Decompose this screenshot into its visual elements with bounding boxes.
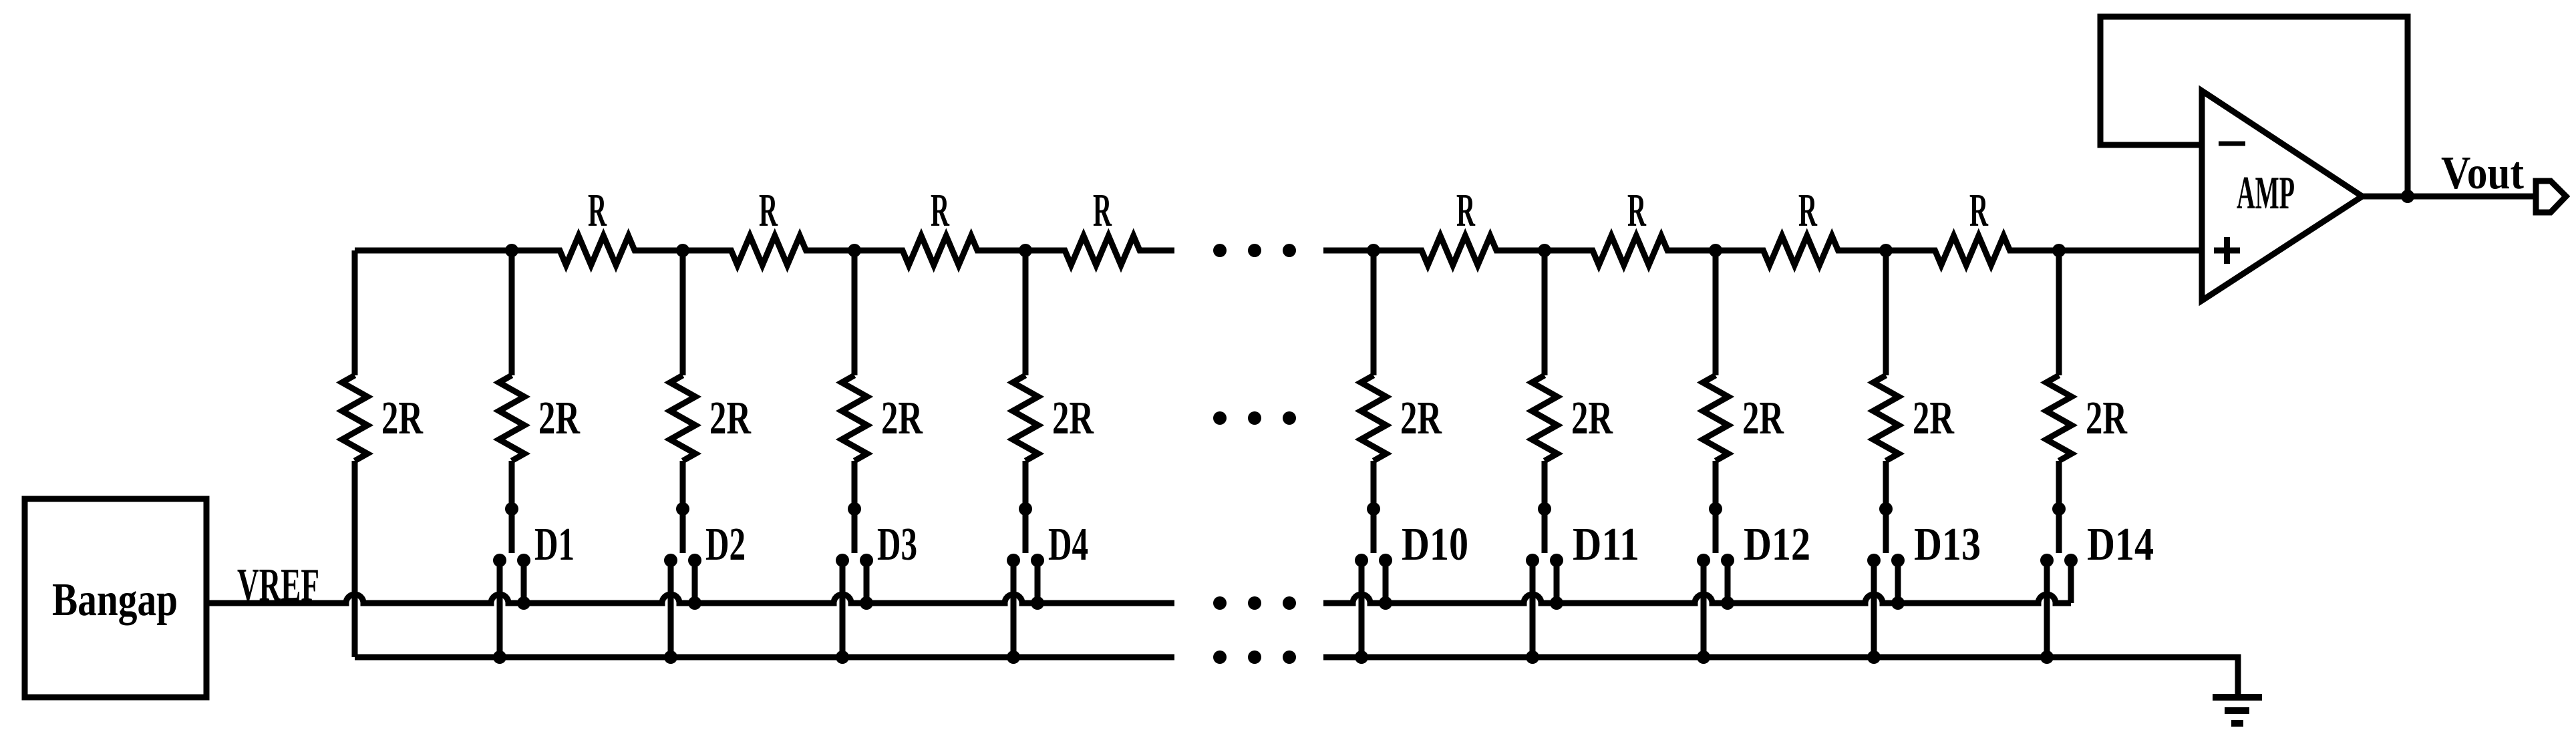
wire top rail (left segment with series R zigzags): [355, 236, 1174, 265]
svg-text:Vout: Vout: [2441, 148, 2524, 199]
svg-text:R: R: [1798, 185, 1818, 236]
svg-text:D12: D12: [1744, 519, 1810, 570]
resistor 2R + switch D12 leg: [1697, 244, 1734, 664]
svg-text:2R: 2R: [538, 393, 581, 444]
svg-text:D11: D11: [1573, 519, 1639, 570]
resistor 2R + switch D13 leg: [1867, 244, 1905, 664]
svg-text:2R: 2R: [709, 393, 752, 444]
svg-text:D4: D4: [1048, 519, 1088, 570]
svg-text:R: R: [1969, 185, 1989, 236]
ellipsis dots (top rail continuation): [1213, 244, 1296, 257]
resistor 2R + switch D4 leg: [1007, 244, 1044, 664]
block U1 Bangap (bandgap reference): [25, 499, 206, 697]
ground: [2213, 697, 2262, 723]
svg-text:D14: D14: [2087, 519, 2154, 570]
svg-text:D10: D10: [1402, 519, 1468, 570]
svg-text:2R: 2R: [1052, 393, 1094, 444]
svg-text:R: R: [588, 185, 607, 236]
svg-text:2R: 2R: [1913, 393, 1955, 444]
op-amp U2 AMP (triangle): [2202, 91, 2362, 301]
svg-text:2R: 2R: [1400, 393, 1442, 444]
resistor 2R + switch D3 leg: [836, 244, 873, 664]
wire VREF bus (right segment, with hops): [1323, 594, 2071, 603]
terminal Vout (output pin symbol): [2536, 181, 2566, 212]
resistor 2R + switch D2 leg: [664, 244, 701, 664]
svg-text:D2: D2: [705, 519, 746, 570]
ellipsis dots (VREF bus continuation): [1213, 596, 1296, 610]
svg-text:D13: D13: [1914, 519, 1981, 570]
svg-text:2R: 2R: [1742, 393, 1784, 444]
op-amp inverting input - sign: [2219, 142, 2245, 146]
resistor 2R + switch D10 leg: [1355, 244, 1392, 664]
op-amp non-inverting input + sign: [2214, 237, 2240, 264]
svg-text:VREF: VREF: [237, 560, 319, 611]
svg-text:D1: D1: [534, 519, 575, 570]
node output junction: [2401, 190, 2414, 203]
svg-text:2R: 2R: [881, 393, 923, 444]
resistor 2R (terminating leg): [352, 250, 358, 375]
svg-text:R: R: [1093, 185, 1112, 236]
wire op-amp output to Vout terminal: [2362, 194, 2536, 200]
wire VREF bus (left segment, with hops): [209, 594, 1174, 603]
svg-text:R: R: [759, 185, 778, 236]
wire ground bus (right segment, to ground): [1323, 657, 2238, 695]
wire ground bus (left segment): [355, 655, 1174, 661]
resistor 2R + switch D1 leg: [493, 244, 530, 664]
svg-text:2R: 2R: [381, 393, 424, 444]
svg-text:AMP: AMP: [2237, 168, 2295, 219]
resistor 2R + switch D11 leg: [1526, 244, 1563, 664]
svg-text:R: R: [931, 185, 950, 236]
svg-text:R: R: [1627, 185, 1647, 236]
svg-text:2R: 2R: [2086, 393, 2128, 444]
svg-text:R: R: [1456, 185, 1476, 236]
svg-text:Bangap: Bangap: [52, 574, 178, 626]
svg-text:D3: D3: [877, 519, 917, 570]
ellipsis dots (2R row continuation): [1213, 411, 1296, 425]
wire top rail (right segment with series R zigzags, to op-amp +): [1323, 236, 2202, 265]
wire feedback loop (output to inverting input): [2100, 17, 2408, 196]
resistor 2R + switch D14 leg: [2040, 244, 2078, 664]
ellipsis dots (ground bus continuation): [1213, 650, 1296, 664]
svg-text:2R: 2R: [1571, 393, 1613, 444]
